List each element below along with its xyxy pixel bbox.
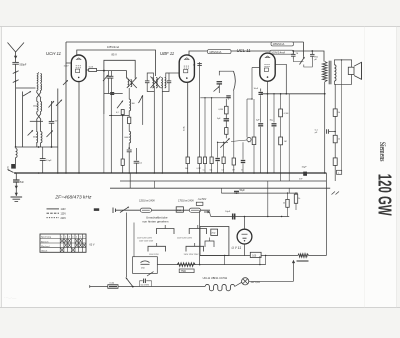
wire y97 <box>200 97 227 99</box>
resistor tube2 k <box>186 157 189 164</box>
wire sw link <box>293 59 303 62</box>
wire V325 down <box>324 94 326 173</box>
svg-text:0,2: 0,2 <box>116 112 119 114</box>
wire IF1 col down <box>128 143 130 149</box>
svg-text:50μF: 50μF <box>240 190 246 192</box>
bus 2 <box>120 180 326 182</box>
wire V199 psu <box>199 210 201 264</box>
switch contact C1 <box>28 130 33 135</box>
wire H 147 <box>16 146 58 148</box>
label 105V/2mA right <box>271 42 294 46</box>
wire coil joins a <box>36 91 38 93</box>
wire bus right down <box>325 181 327 256</box>
IF2 cross <box>151 77 161 89</box>
wire H2b <box>189 51 324 62</box>
wire Vf <box>103 71 105 114</box>
svg-text:110V 125V 220V: 110V 125V 220V <box>177 237 193 239</box>
wire anode to IF1 <box>97 70 127 72</box>
svg-text:175Ω bei 240V: 175Ω bei 240V <box>178 200 194 203</box>
svg-text:10nF: 10nF <box>254 88 259 90</box>
selector box <box>200 227 229 256</box>
selector inner <box>205 241 214 247</box>
svg-text:→ bei 50V: → bei 50V <box>196 199 207 201</box>
wire coil joins b <box>39 91 41 93</box>
tube UCL11 <box>260 53 275 81</box>
switch box250 <box>147 272 154 276</box>
wire y264 <box>157 264 265 266</box>
wire bus links <box>129 173 131 188</box>
wire UY bottom <box>244 244 246 256</box>
wire V265 <box>265 256 267 265</box>
capacitor row x243 <box>242 142 244 159</box>
capacitor row x217 <box>217 142 219 157</box>
selector bracket 1 <box>157 229 175 235</box>
capacitor 0.5uF <box>40 158 46 160</box>
resistor Rc <box>333 158 337 166</box>
svg-text:1k: 1k <box>298 198 300 200</box>
svg-text:110V 125V 220V: 110V 125V 220V <box>137 237 153 239</box>
wire V111 <box>110 94 112 174</box>
wire V289b <box>288 188 290 193</box>
wire V259 <box>259 256 261 265</box>
svg-text:110V 125V 220V: 110V 125V 220V <box>184 254 200 256</box>
wire H1 right drop <box>303 42 305 56</box>
coil core cross 2 <box>37 114 42 120</box>
svg-text:5n: 5n <box>241 170 243 172</box>
wire V267 psu <box>267 181 269 217</box>
svg-text:125V: 125V <box>61 213 67 215</box>
capacitor 250pF <box>311 50 313 52</box>
arrow y216 <box>204 211 209 213</box>
wire V335 down <box>334 84 336 109</box>
capacitor 5nF IF <box>110 92 114 94</box>
capacitor 10pF <box>197 63 202 65</box>
coil L1 primary <box>37 74 38 83</box>
svg-text:0,1Ω: 0,1Ω <box>110 283 115 285</box>
wire heater link <box>235 282 242 286</box>
wire IF2 right loop <box>162 86 169 92</box>
switch contact C2 <box>47 131 53 138</box>
capacitor 50pF <box>49 120 55 122</box>
capacitor 5uF30V <box>224 118 230 120</box>
svg-text:220V: 220V <box>61 218 67 220</box>
wire V199 <box>199 62 201 157</box>
resistor R280 a <box>280 94 282 109</box>
resistor 100 box <box>250 252 261 257</box>
wire IF2 to grid <box>169 72 179 74</box>
resistor row x234 <box>233 91 235 158</box>
resistor 0.1ohm <box>108 285 118 289</box>
wire mains stub <box>89 285 91 288</box>
coil IF1 low <box>128 124 130 132</box>
svg-text:12V 0,1A: 12V 0,1A <box>251 281 261 284</box>
resistor 7500 <box>177 263 195 267</box>
svg-text:63 V: 63 V <box>90 244 95 247</box>
wire to coil L1 <box>16 87 36 89</box>
trimmer C3 <box>63 80 68 85</box>
wire V205 <box>204 98 206 157</box>
resistor tiny 50V <box>196 202 203 205</box>
terminal L <box>337 170 342 174</box>
resistor Ra <box>333 109 337 117</box>
svg-text:Wechsel: Wechsel <box>41 246 50 248</box>
resistor Rb <box>333 135 337 143</box>
wire Vd <box>65 63 67 173</box>
wire primary bottom <box>324 82 326 94</box>
wire V211 <box>211 98 213 157</box>
capacitor 10uF b <box>232 214 234 220</box>
wire V224 <box>224 256 226 265</box>
wire Vc <box>57 89 59 174</box>
wire branch Vb <box>22 92 24 148</box>
wire tube1 anode <box>86 69 89 71</box>
coil core cross 1 <box>37 92 42 98</box>
IF transformer 2 primary <box>152 78 153 88</box>
svg-text:0,5M: 0,5M <box>284 113 289 115</box>
svg-text:50k: 50k <box>210 170 213 172</box>
trimmer IF1 <box>103 75 108 81</box>
svg-text:von hinten gesehen: von hinten gesehen <box>142 219 169 223</box>
antenna <box>8 43 25 53</box>
resistor V122 low <box>121 159 124 165</box>
wire y93 <box>104 93 123 95</box>
svg-text:0000: 0000 <box>33 137 37 139</box>
wire tube3 left <box>252 67 260 69</box>
dial lamp <box>242 278 249 285</box>
wire H2a <box>77 50 156 76</box>
legend line 110V <box>47 208 60 210</box>
svg-text:bei 190V: bei 190V <box>141 284 150 286</box>
speaker <box>348 67 354 74</box>
wire antenna mid <box>15 70 17 79</box>
IF transformer 1 <box>126 71 128 79</box>
bus tick <box>154 181 156 188</box>
svg-text:~ ~~—~——: ~ ~~—~—— <box>4 298 17 300</box>
capacitor det <box>217 81 223 83</box>
svg-text:120 GW: 120 GW <box>374 174 394 216</box>
svg-text:105V/2mA: 105V/2mA <box>209 50 221 54</box>
trimmer C ant2 <box>56 100 62 106</box>
capacitor 0.1 mid <box>135 148 137 161</box>
capacitor 500pF antenna <box>15 60 17 62</box>
svg-text:0,1: 0,1 <box>203 170 205 172</box>
svg-text:0,3: 0,3 <box>222 170 224 172</box>
svg-text:0,1M: 0,1M <box>197 168 201 170</box>
selector bracket 4 <box>186 246 204 251</box>
svg-text:U Y 11: U Y 11 <box>232 246 242 250</box>
wire V292 <box>293 262 295 282</box>
wire V157 <box>156 257 158 265</box>
bus chassis <box>14 172 326 174</box>
wire y60 <box>104 60 135 78</box>
resistor 25ohm box2 <box>211 229 218 235</box>
terminal E <box>11 164 16 169</box>
svg-text:105V/2mA: 105V/2mA <box>273 43 285 46</box>
capacitor mains <box>143 279 145 284</box>
svg-text:110V 125V: 110V 125V <box>149 254 159 256</box>
page bottom edge <box>0 307 400 309</box>
wire secondary top <box>334 60 351 67</box>
svg-text:Siemens: Siemens <box>378 142 387 162</box>
resistor IF1 col <box>128 111 130 117</box>
resistor psu a <box>287 193 289 199</box>
wire tube1 cathode down <box>78 82 80 173</box>
svg-text:5mA: 5mA <box>183 126 186 131</box>
boxed label 105V/2mA mid <box>208 50 232 54</box>
wire cap down <box>51 123 53 147</box>
output transformer primary <box>322 62 327 82</box>
svg-text:0,3M: 0,3M <box>219 109 224 111</box>
wire H1 left drop <box>66 42 71 63</box>
wire V162 <box>161 92 163 174</box>
capacitor IF1 a <box>108 71 110 77</box>
svg-text:10μF: 10μF <box>225 211 231 213</box>
trimmer C osc <box>49 101 55 108</box>
resistor 0.05M <box>89 69 97 72</box>
component dark <box>94 208 99 211</box>
box 250 cap <box>133 257 158 274</box>
svg-text:Spannung: Spannung <box>41 237 52 239</box>
wire antenna down <box>15 79 17 147</box>
wire V122 <box>122 115 124 159</box>
wire V126 <box>125 213 127 278</box>
heater chain <box>205 284 234 290</box>
capacitor IF2 right <box>168 77 170 81</box>
svg-text:UCL 11: UCL 11 <box>237 48 252 53</box>
svg-text:125Ω bei 240V: 125Ω bei 240V <box>139 200 155 203</box>
resistor V199 low <box>198 157 201 164</box>
svg-text:5nF: 5nF <box>20 182 25 184</box>
resistor 0.3M <box>225 99 227 106</box>
legend line 125V <box>47 212 60 214</box>
svg-text:UBF 11: UBF 11 <box>160 51 175 56</box>
resistor row x223 <box>223 142 225 157</box>
switch contact A1 <box>13 71 19 74</box>
wire mains line <box>90 286 205 288</box>
potentiometer curve <box>234 71 236 91</box>
capacitor 2nF TS <box>292 50 294 52</box>
tube UBF11 <box>179 55 194 82</box>
switch contact A2 <box>13 80 19 83</box>
plug terminal <box>112 208 114 214</box>
wire y115 <box>109 114 129 116</box>
wire y193 <box>221 192 298 194</box>
svg-text:50k: 50k <box>185 168 188 170</box>
output transformer secondary <box>334 65 336 81</box>
wire tube2 down <box>187 82 189 157</box>
switch IF1 b <box>117 101 123 109</box>
coil ant bottom <box>16 149 18 158</box>
capacitor det y97 <box>226 95 231 97</box>
wire y193 drop <box>220 188 222 193</box>
svg-text:2k: 2k <box>283 203 285 205</box>
capacitor IF2 left <box>146 77 148 81</box>
resistor 0.2M <box>121 110 124 115</box>
wire tube3 grid2 <box>246 99 248 137</box>
svg-text:25Ω: 25Ω <box>177 210 181 212</box>
wire Ra-Rb <box>334 116 336 135</box>
detector arrow <box>214 86 220 91</box>
wire tube3 anode <box>275 64 286 94</box>
resistor R254 <box>253 99 255 137</box>
svg-text:110V: 110V <box>61 209 67 211</box>
svg-text:1M: 1M <box>284 141 287 143</box>
capacitor 30uF c <box>273 94 275 123</box>
capacitor 10nF a <box>260 89 262 92</box>
coil L2 <box>37 102 38 112</box>
wire Rb-Rc <box>334 143 336 158</box>
coil L1b <box>37 84 38 91</box>
resistor TB <box>225 121 227 128</box>
capacitor 0.1uF right <box>326 129 328 134</box>
wire y142 <box>218 141 228 143</box>
wire tube3 cath <box>267 81 269 173</box>
svg-text:105V/2mA: 105V/2mA <box>107 45 119 49</box>
tube UY11 <box>237 229 252 244</box>
page top edge <box>0 26 400 28</box>
capacitor IF1 col <box>127 149 132 151</box>
wire V103 low <box>103 114 105 173</box>
coil L3 <box>36 132 37 143</box>
svg-text:500pF: 500pF <box>20 64 27 67</box>
svg-text:10μF: 10μF <box>302 166 308 168</box>
fuse 1 <box>140 208 151 212</box>
wire V289 <box>288 94 290 181</box>
resistor row x205 <box>203 157 206 164</box>
wire IF2 left loop <box>147 73 153 78</box>
selector bracket 3 <box>148 246 166 251</box>
capacitor 5nF <box>15 173 17 180</box>
resistor R280 b <box>280 117 282 137</box>
IF1 secondary coil <box>128 88 130 99</box>
wire secondary bottom <box>334 75 351 85</box>
switch contact B <box>23 91 31 96</box>
wire y256 <box>200 255 298 257</box>
switch mains sel <box>120 207 129 213</box>
wire y93 right <box>261 93 325 95</box>
svg-text:25Ω: 25Ω <box>211 233 215 235</box>
wire selector left <box>133 223 135 257</box>
selector bracket 2 <box>189 229 206 235</box>
page right edge <box>396 27 398 308</box>
wire Rc down <box>334 165 336 181</box>
wire mains selector line <box>115 209 210 211</box>
ground arrow <box>15 183 17 197</box>
IF transformer 2 secondary <box>161 78 162 88</box>
svg-text:7500: 7500 <box>181 271 187 273</box>
svg-text:UCH 11: UCH 11 <box>46 51 62 56</box>
poti wiper <box>220 138 229 147</box>
svg-text:Gleich: Gleich <box>41 251 48 253</box>
svg-text:UCL11 UBF11 UCH11: UCL11 UBF11 UCH11 <box>203 277 228 280</box>
legend line 220V <box>47 217 60 219</box>
wire det top <box>219 71 233 75</box>
wire sw down <box>303 56 305 58</box>
wire y216 <box>211 216 290 218</box>
tube UCH11 <box>71 55 86 82</box>
wire V142 <box>142 95 144 125</box>
svg-text:85 V: 85 V <box>112 52 118 56</box>
capacitor IF1 b <box>110 71 112 77</box>
wire cap mains link <box>138 281 140 287</box>
dash marks right <box>332 192 336 195</box>
resistor psu b <box>295 193 297 194</box>
page left edge <box>1 27 3 308</box>
svg-text:0000: 0000 <box>124 137 128 139</box>
bus 3 <box>110 187 330 189</box>
wire lamp right <box>249 280 294 282</box>
resistor row x211 <box>210 157 213 164</box>
capacitor on bus right <box>303 172 307 176</box>
bus arrow left <box>8 170 14 173</box>
svg-text:Bereich: Bereich <box>41 240 49 243</box>
svg-text:110V 125V 220V: 110V 125V 220V <box>139 241 154 243</box>
capacitor 5uF b <box>258 123 263 125</box>
capacitor 50uF a <box>234 190 239 192</box>
voltage table <box>40 234 86 252</box>
wire det mid <box>218 84 220 93</box>
svg-text:300: 300 <box>132 103 135 105</box>
svg-text:30μ: 30μ <box>270 120 273 122</box>
ground symbol <box>11 196 23 198</box>
fuse 3 <box>189 208 200 212</box>
bus junction dots <box>15 172 17 174</box>
wire H1 top bus <box>66 41 304 43</box>
svg-text:0,5μF: 0,5μF <box>46 160 52 162</box>
fold line <box>364 27 366 308</box>
trimmer IF1 sec <box>139 95 143 103</box>
switch TS <box>300 57 305 65</box>
boxed label 100V/0.4mA <box>270 50 294 54</box>
resistor heater dropper <box>298 254 309 257</box>
switch mains <box>126 278 133 287</box>
wire gnd stub <box>15 158 17 165</box>
svg-text:2000: 2000 <box>33 106 37 108</box>
output transformer core <box>328 61 330 85</box>
svg-text:ZF=468/473 kHz: ZF=468/473 kHz <box>54 195 92 201</box>
wire V154 <box>153 92 155 174</box>
wire UY top <box>244 217 246 230</box>
wire pot to jack <box>231 140 247 142</box>
wire H 121 <box>30 120 43 122</box>
jack circle <box>247 137 251 141</box>
resistor 25ohm box <box>176 207 183 212</box>
wire trimmer <box>51 101 53 122</box>
wire V341 <box>341 60 343 170</box>
svg-text:100V/0,4mA: 100V/0,4mA <box>271 51 285 54</box>
